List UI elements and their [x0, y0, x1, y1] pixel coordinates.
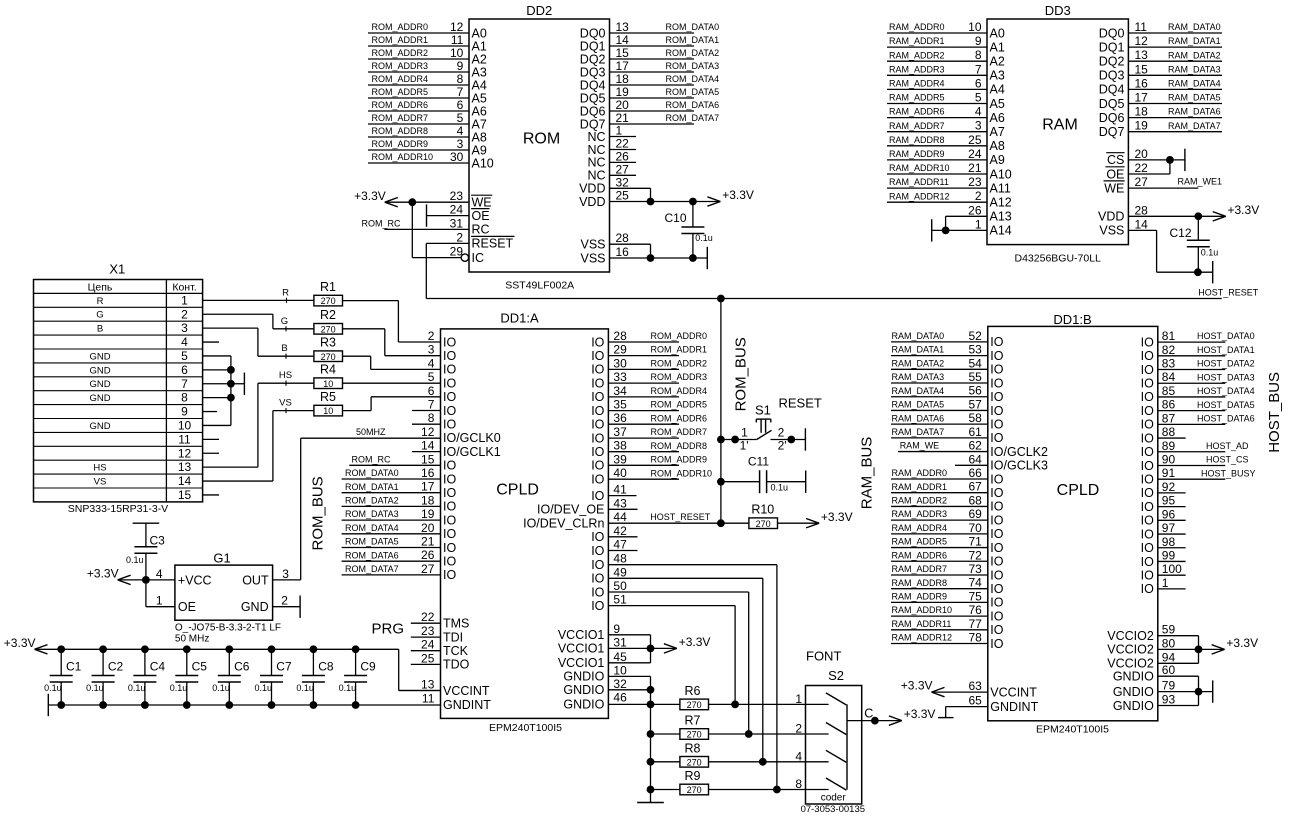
svg-text:DD3: DD3 [1045, 3, 1071, 18]
DD2 pin 12 (A0) / net ROM_ADDR0 [368, 20, 487, 40]
svg-text:90: 90 [1162, 452, 1176, 466]
svg-text:IO: IO [591, 530, 604, 544]
svg-text:ROM_RC: ROM_RC [362, 218, 402, 228]
svg-text:C10: C10 [665, 211, 687, 225]
svg-text:19: 19 [1135, 119, 1149, 133]
svg-text:A8: A8 [472, 130, 487, 144]
svg-text:GND: GND [89, 421, 110, 432]
svg-text:38: 38 [613, 439, 627, 453]
svg-text:GNDIO: GNDIO [1113, 670, 1154, 684]
svg-text:IO: IO [443, 390, 456, 404]
S1 contact 1 dot [731, 436, 739, 444]
DD3 pin 6 (A4) / net RAM_ADDR4 [887, 76, 1005, 96]
wire R3 out to DD1:A pin4 [343, 356, 441, 369]
svg-text:A7: A7 [990, 125, 1005, 139]
junction G1 VCC / C3 [142, 576, 150, 584]
DD1:A pin 26 (IO) left [421, 548, 456, 568]
svg-text:IO: IO [990, 527, 1003, 541]
svg-text:X1: X1 [109, 261, 125, 276]
svg-text:IO: IO [990, 376, 1003, 390]
svg-text:A1: A1 [990, 40, 1005, 54]
net label VS with tick [279, 398, 292, 414]
svg-text:IO: IO [1141, 514, 1154, 528]
svg-text:SNP333-15RP31-3-V: SNP333-15RP31-3-V [68, 503, 168, 515]
svg-text:R8: R8 [685, 742, 701, 756]
svg-text:IO: IO [990, 513, 1003, 527]
svg-text:RAM_ADDR4: RAM_ADDR4 [889, 79, 945, 89]
svg-text:36: 36 [613, 411, 627, 425]
svg-text:WE: WE [1104, 181, 1124, 195]
DD3 pin 7 (A3) / net RAM_ADDR3 [887, 62, 1005, 82]
svg-text:57: 57 [968, 397, 982, 411]
svg-text:VSS: VSS [580, 251, 605, 265]
DD1:B pin 54 (IO) left / net RAM_DATA2 [891, 356, 1004, 376]
svg-text:50: 50 [613, 579, 627, 593]
svg-text:0.1u: 0.1u [86, 683, 104, 693]
svg-text:VDD: VDD [579, 195, 605, 209]
wire X1 GND bracket pins 5-10 [203, 356, 245, 426]
DD1:A pin 34 (IO) right [591, 384, 627, 404]
DD1:B pin 73 (IO) left / net RAM_ADDR7 [891, 562, 1004, 582]
svg-text:33: 33 [613, 370, 627, 384]
junction pin51/R6 [731, 701, 739, 709]
svg-text:VSS: VSS [1099, 224, 1124, 238]
svg-text:IO: IO [1141, 335, 1154, 349]
svg-text:A12: A12 [990, 196, 1012, 210]
svg-text:5: 5 [457, 111, 464, 125]
svg-text:G1: G1 [213, 550, 230, 565]
junction (WE/IC +3.3V) [408, 198, 416, 206]
svg-text:HOST_RESET: HOST_RESET [1198, 287, 1259, 297]
DD2 pin 11 (A1) / net ROM_ADDR1 [368, 33, 487, 53]
svg-text:27: 27 [616, 162, 630, 176]
ground terminator (R bank) [637, 802, 664, 804]
DD1:B pin 81 (IO) right / net HOST_DATA0 [1141, 329, 1255, 349]
power +3.3V arrow (DD1:A VCCIO1) [664, 635, 711, 653]
svg-text:0.1u: 0.1u [254, 683, 272, 693]
svg-text:VDD: VDD [1098, 210, 1124, 224]
wire R1 out to DD1:A pin2 [343, 301, 441, 342]
DD1:A pin 8 (IO) left [428, 411, 457, 431]
junction C9 top [352, 645, 360, 653]
svg-text:27: 27 [421, 562, 435, 576]
svg-text:9: 9 [457, 59, 464, 73]
svg-text:DQ3: DQ3 [580, 65, 606, 79]
svg-text:IC: IC [472, 251, 485, 265]
svg-text:+3.3V: +3.3V [4, 636, 36, 650]
capacitor C6 0.1u [212, 649, 249, 705]
resistor R7 270 [680, 714, 709, 740]
svg-text:15: 15 [1135, 62, 1149, 76]
svg-text:VCCIO1: VCCIO1 [558, 656, 605, 670]
svg-text:+3.3V: +3.3V [904, 707, 936, 721]
svg-text:IO: IO [591, 363, 604, 377]
svg-text:26: 26 [616, 149, 630, 163]
svg-text:A7: A7 [472, 117, 487, 131]
junction C7 bottom [268, 701, 276, 709]
svg-text:HOST_RESET: HOST_RESET [650, 512, 711, 522]
svg-text:R7: R7 [685, 714, 701, 728]
svg-text:55: 55 [968, 370, 982, 384]
DD1:A wire net ROM_ADDR4 [608, 386, 707, 397]
resistor R8 270 [680, 742, 709, 768]
svg-text:DQ6: DQ6 [580, 104, 606, 118]
wire DD1:A pin51 to R6 [608, 606, 735, 705]
net label R with tick [282, 287, 289, 303]
svg-text:GNDINT: GNDINT [443, 698, 491, 712]
svg-text:IO: IO [591, 376, 604, 390]
DD1:A pin 9 (VCCIO1) [558, 622, 651, 663]
svg-text:ROM_DATA2: ROM_DATA2 [345, 496, 399, 506]
junction X1 gnd p6 [227, 366, 235, 374]
svg-text:48: 48 [613, 552, 627, 566]
svg-text:VCCINT: VCCINT [990, 685, 1037, 699]
svg-text:RAM_ADDR8: RAM_ADDR8 [892, 578, 948, 588]
ground terminator DD1:B GNDINT [938, 717, 954, 719]
svg-text:OE: OE [472, 209, 490, 223]
svg-text:DQ3: DQ3 [1099, 69, 1125, 83]
DD2 pin 26 (NC) stub [587, 149, 636, 169]
terminator C11 right [805, 471, 807, 493]
svg-text:270: 270 [321, 324, 336, 334]
DD3 pin 5 (A5) / net RAM_ADDR5 [887, 91, 1005, 111]
DD1:A wire net ROM_ADDR9 [608, 454, 707, 465]
svg-text:4: 4 [428, 356, 435, 370]
wire DD1:A pin41 stub [608, 495, 636, 497]
svg-text:GND: GND [89, 393, 110, 404]
svg-text:51: 51 [613, 593, 627, 607]
junction X1 gnd p7 [227, 380, 235, 388]
svg-text:30: 30 [613, 356, 627, 370]
DD1:A pin 15 (IO) left [421, 452, 456, 472]
junction VSS bracket [647, 254, 655, 262]
connector X1 SNP333-15RP31-3-V [34, 261, 203, 515]
svg-text:ROM_DATA1: ROM_DATA1 [345, 482, 399, 492]
DD1:B pin 80 (VCCIO2) / +3.3V [1107, 636, 1224, 656]
DD2 pin 24 (OE) with terminator [427, 203, 490, 227]
svg-text:GND: GND [89, 365, 110, 376]
wire R9 out to S2 pin8 [709, 789, 806, 791]
DD1:B pin 97 (IO) right stub [1141, 521, 1186, 541]
svg-text:65: 65 [968, 694, 982, 708]
DD1:A wire net ROM_ADDR6 [608, 413, 707, 424]
DD3 pin 18 (DQ6) / net RAM_DATA6 [1099, 105, 1222, 125]
DD1:A pin 32 (GNDIO) [563, 677, 650, 697]
svg-text:IO: IO [1141, 418, 1154, 432]
svg-text:IO: IO [443, 541, 456, 555]
DD1:A pin 7 (IO) left [428, 398, 457, 418]
ground terminator DD1:B GNDIO [1212, 680, 1214, 702]
svg-text:3: 3 [457, 137, 464, 151]
DD1:B pin 72 (IO) left / net RAM_ADDR6 [891, 548, 1004, 568]
svg-text:2: 2 [975, 189, 982, 203]
svg-text:IO: IO [443, 459, 456, 473]
svg-text:88: 88 [1162, 425, 1176, 439]
junction X1 gnd p8 [227, 394, 235, 402]
DD1:A pin 21 (IO) left [421, 535, 456, 555]
svg-text:46: 46 [613, 691, 627, 705]
svg-text:G: G [96, 310, 103, 321]
svg-text:41: 41 [613, 483, 627, 497]
DD1:A pin 18 (IO) left [421, 493, 456, 513]
svg-text:ROM_RC: ROM_RC [352, 454, 392, 464]
svg-text:IO: IO [591, 473, 604, 487]
svg-text:15: 15 [421, 452, 435, 466]
wire X1 pin15 stub [203, 494, 219, 496]
X1 contact 13 row [34, 460, 203, 474]
svg-text:VS: VS [94, 476, 107, 487]
X1 contact 6 row [34, 363, 203, 377]
svg-text:2: 2 [428, 329, 435, 343]
svg-text:RAM_ADDR7: RAM_ADDR7 [889, 121, 945, 131]
svg-text:10: 10 [178, 418, 192, 432]
svg-text:24: 24 [968, 147, 982, 161]
svg-text:C12: C12 [1170, 226, 1192, 240]
svg-text:C2: C2 [108, 660, 124, 674]
DD1:A pin15 net ROM_RC [349, 454, 440, 465]
DD3 pin 19 (DQ7) / net RAM_DATA7 [1099, 119, 1222, 139]
X1 contact 4 row [34, 335, 203, 349]
svg-text:GNDIO: GNDIO [563, 670, 604, 684]
junction VCCIO2 [1195, 646, 1203, 654]
svg-text:A3: A3 [472, 65, 487, 79]
DD1:A net ROM_DATA2 [342, 496, 441, 507]
svg-text:25: 25 [421, 651, 435, 665]
svg-text:A4: A4 [472, 78, 487, 92]
svg-text:IO: IO [990, 404, 1003, 418]
wire R7 input [651, 733, 680, 735]
svg-text:VCCIO1: VCCIO1 [558, 642, 605, 656]
svg-text:D43256BGU-70LL: D43256BGU-70LL [1015, 253, 1102, 265]
junction S2 C [871, 717, 879, 725]
DD1:A pin 39 (IO) right [591, 452, 627, 472]
DD1:B pin 78 (IO) left / net RAM_ADDR12 [891, 631, 1004, 651]
DD3 pin 10 (A0) / net RAM_ADDR0 [887, 20, 1005, 40]
junction C8 bottom [310, 701, 318, 709]
svg-text:RAM_ADDR6: RAM_ADDR6 [892, 550, 948, 560]
capacitor C2 0.1u [86, 649, 123, 705]
DD1:A pin 24 (TCK) stub [411, 638, 469, 658]
svg-text:+3.3V: +3.3V [354, 189, 386, 203]
svg-text:C1: C1 [66, 660, 82, 674]
svg-text:IO: IO [990, 582, 1003, 596]
power +3.3V arrow (DD2 WE) [354, 189, 398, 207]
svg-text:270: 270 [756, 519, 771, 529]
svg-text:270: 270 [687, 785, 702, 795]
svg-text:0.1u: 0.1u [128, 683, 146, 693]
svg-text:13: 13 [616, 20, 630, 34]
svg-text:HOST_DATA3: HOST_DATA3 [1197, 372, 1255, 382]
resistor R4 10 [314, 363, 343, 389]
svg-text:4: 4 [457, 124, 464, 138]
svg-text:A9: A9 [472, 143, 487, 157]
junction C9 bottom [352, 701, 360, 709]
svg-text:99: 99 [1162, 548, 1176, 562]
svg-text:R3: R3 [320, 336, 336, 350]
svg-text:DD2: DD2 [526, 3, 552, 18]
DD1:B pin 92 (IO) right stub [1141, 480, 1186, 500]
svg-text:26: 26 [968, 203, 982, 217]
svg-text:DQ2: DQ2 [1099, 55, 1125, 69]
svg-text:ROM_DATA0: ROM_DATA0 [666, 22, 720, 32]
DD1:A pin 51 (IO) right [591, 593, 627, 613]
DD3 pin 9 (A1) / net RAM_ADDR1 [887, 34, 1005, 54]
DD1:A pin 37 (IO) right [591, 425, 627, 445]
svg-text:62: 62 [968, 439, 982, 453]
svg-text:ROM_ADDR2: ROM_ADDR2 [651, 359, 708, 369]
DD2 pin 31 (RC) / net ROM_RC [362, 216, 490, 236]
svg-text:0.1u: 0.1u [212, 683, 230, 693]
svg-text:RAM_ADDR1: RAM_ADDR1 [892, 482, 948, 492]
svg-text:87: 87 [1162, 411, 1176, 425]
X1 contact 2 row [34, 307, 203, 321]
svg-text:Цепь: Цепь [88, 281, 113, 293]
junction C1 top [57, 645, 65, 653]
junction C4 bottom [141, 701, 149, 709]
DD2 pin 13 (DQ0) / net ROM_DATA0 [580, 20, 719, 40]
svg-text:91: 91 [1162, 466, 1176, 480]
DD3 pin 11 (DQ0) / net RAM_DATA0 [1099, 20, 1222, 40]
S2 contact 1 with switch blade [795, 692, 846, 706]
svg-text:6: 6 [457, 98, 464, 112]
svg-text:IO: IO [990, 596, 1003, 610]
svg-text:VCCINT: VCCINT [443, 684, 490, 698]
svg-text:10: 10 [323, 379, 333, 389]
junction S1 branch [717, 436, 725, 444]
svg-text:IO: IO [990, 623, 1003, 637]
svg-text:GNDIO: GNDIO [1113, 685, 1154, 699]
svg-text:270: 270 [321, 352, 336, 362]
svg-text:RAM_DATA3: RAM_DATA3 [892, 372, 945, 382]
svg-text:4: 4 [795, 749, 802, 763]
svg-text:5: 5 [975, 91, 982, 105]
svg-text:63: 63 [968, 679, 982, 693]
svg-text:270: 270 [321, 296, 336, 306]
DD1:A pin 45 (VCCIO1) [558, 650, 651, 670]
svg-text:IO: IO [990, 363, 1003, 377]
svg-text:27: 27 [1135, 175, 1149, 189]
S2 common output C / +3.3V [847, 706, 902, 720]
wire DD1:A pin14 stub [412, 451, 441, 453]
svg-text:RAM_DATA2: RAM_DATA2 [892, 358, 945, 368]
svg-text:76: 76 [968, 603, 982, 617]
svg-text:C4: C4 [150, 660, 166, 674]
svg-text:RESET: RESET [779, 396, 822, 411]
svg-text:49: 49 [613, 565, 627, 579]
G1 pin 1 (OE) [146, 580, 175, 608]
DD2 pin 30 (A10) / net ROM_ADDR10 [368, 150, 494, 170]
svg-text:19: 19 [421, 507, 435, 521]
svg-text:ROM_DATA3: ROM_DATA3 [345, 509, 399, 519]
svg-text:9: 9 [613, 622, 620, 636]
svg-text:VCCIO1: VCCIO1 [558, 628, 605, 642]
X1 contact 11 row [34, 432, 203, 446]
DD1:B pin 99 (IO) right stub [1141, 548, 1186, 568]
svg-text:ROM_ADDR2: ROM_ADDR2 [372, 48, 429, 58]
DD1:A net ROM_DATA6 [342, 550, 441, 561]
wire DD1:A pin50 to R7 [608, 592, 748, 734]
svg-text:ROM_DATA1: ROM_DATA1 [666, 35, 720, 45]
svg-text:IO: IO [1141, 390, 1154, 404]
svg-text:ROM_DATA6: ROM_DATA6 [345, 550, 399, 560]
DD1:B pin 67 (IO) left / net RAM_ADDR1 [891, 480, 1004, 500]
svg-text:0.1u: 0.1u [170, 683, 188, 693]
G1 pin 2 (GND) with terminator [273, 594, 301, 618]
DD2 pin 9 (A3) / net ROM_ADDR3 [368, 59, 487, 79]
junction C12 bottom [1194, 268, 1202, 276]
svg-text:ROM_ADDR3: ROM_ADDR3 [651, 372, 708, 382]
svg-text:34: 34 [613, 384, 627, 398]
DD1:A wire net ROM_ADDR2 [608, 359, 707, 370]
svg-text:IO: IO [990, 609, 1003, 623]
svg-text:77: 77 [968, 617, 982, 631]
svg-text:21: 21 [968, 161, 982, 175]
DD1:A net ROM_DATA1 [342, 482, 441, 493]
svg-text:2': 2' [778, 439, 787, 453]
net label B with tick [281, 343, 287, 359]
junction GNDIO 79 [1195, 688, 1203, 696]
svg-text:S1: S1 [755, 403, 771, 418]
DD1:A wire net ROM_ADDR5 [608, 400, 707, 411]
svg-text:14: 14 [1135, 217, 1149, 231]
junction C10 top [689, 198, 697, 206]
svg-text:R2: R2 [320, 308, 336, 322]
svg-text:DQ5: DQ5 [1099, 97, 1125, 111]
DD1:B pin 79 (GNDIO) / ground [1113, 679, 1213, 699]
svg-text:IO: IO [1141, 527, 1154, 541]
svg-text:0.1u: 0.1u [126, 555, 144, 565]
DD1:B pin 70 (IO) left / net RAM_ADDR4 [891, 521, 1004, 541]
DD2 pin 18 (DQ4) / net ROM_DATA4 [580, 72, 719, 92]
svg-text:HOST_AD: HOST_AD [1206, 441, 1249, 451]
svg-text:S2: S2 [828, 668, 844, 683]
svg-text:26: 26 [421, 548, 435, 562]
svg-text:IO/GCLK0: IO/GCLK0 [443, 431, 501, 445]
svg-text:1: 1 [741, 425, 748, 439]
svg-text:TMS: TMS [443, 617, 469, 631]
DD1:A pin 23 (TDI) stub [411, 624, 463, 644]
svg-text:IO: IO [443, 472, 456, 486]
svg-text:37: 37 [613, 425, 627, 439]
junction VDD bracket [647, 198, 655, 206]
resistor R2 270 [314, 308, 343, 334]
svg-text:RAM_DATA3: RAM_DATA3 [1168, 64, 1221, 74]
wire DD1:A pin7 stub [412, 410, 441, 412]
S2 contact 4 with switch blade [795, 749, 846, 763]
svg-text:93: 93 [1162, 693, 1176, 707]
svg-text:39: 39 [613, 452, 627, 466]
svg-text:RAM_DATA1: RAM_DATA1 [892, 345, 945, 355]
svg-text:94: 94 [1162, 650, 1176, 664]
svg-text:4: 4 [975, 105, 982, 119]
svg-text:A14: A14 [990, 224, 1012, 238]
switch S1 RESET pushbutton [721, 396, 822, 453]
svg-text:ROM_ADDR8: ROM_ADDR8 [651, 441, 708, 451]
svg-text:OE: OE [1106, 167, 1124, 181]
junction pin48/R9 [773, 786, 781, 794]
DD2 pin 25 (VDD) / net +3.3V [579, 189, 720, 209]
DD3 pin 17 (DQ5) / net RAM_DATA5 [1099, 91, 1222, 111]
DD1:A pin 6 (IO) left [428, 384, 457, 404]
svg-text:RAM_ADDR11: RAM_ADDR11 [892, 619, 952, 629]
junction A13/A14 [942, 227, 950, 235]
svg-text:ROM_BUS: ROM_BUS [733, 337, 750, 411]
svg-text:HOST_DATA4: HOST_DATA4 [1197, 386, 1255, 396]
DD3 pin 13 (DQ2) / net RAM_DATA2 [1099, 48, 1222, 68]
IC DD1:A CPLD body [441, 311, 609, 735]
svg-text:43: 43 [613, 496, 627, 510]
DD1:B pin 61 (IO) left / net RAM_DATA7 [891, 425, 1004, 445]
